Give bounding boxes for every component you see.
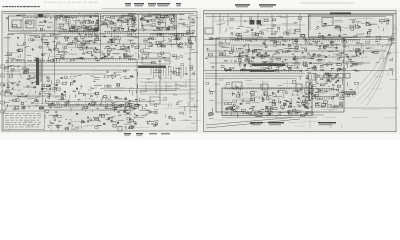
wire: [83, 39, 91, 41]
wire: [114, 71, 122, 73]
capacitor C20: [172, 26, 176, 28]
pin tick: [87, 105, 89, 107]
value label: [125, 51, 128, 52]
wire: [118, 56, 120, 59]
IC U50: [126, 110, 130, 113]
pin tick: [99, 59, 101, 61]
transistor Q48: [108, 54, 110, 56]
value label: [180, 19, 183, 20]
wire: [121, 21, 128, 23]
diode D7: [85, 34, 87, 36]
resistor R21: [187, 30, 190, 32]
wire: [96, 95, 98, 98]
wire: [51, 80, 53, 84]
node junction: [347, 45, 350, 48]
value label: [130, 15, 134, 16]
wire: [140, 117, 144, 119]
wire: [291, 90, 300, 92]
value label: [192, 43, 194, 44]
wire: [323, 22, 327, 24]
pin tick: [166, 16, 168, 18]
pin tick: [75, 16, 77, 18]
value label: [96, 27, 99, 28]
wire: [177, 106, 189, 108]
wire: [357, 23, 359, 28]
wire: [189, 109, 196, 111]
value label: [107, 58, 110, 59]
wire: [294, 56, 299, 58]
wire: [37, 99, 39, 105]
pin tick: [125, 59, 127, 61]
transistor Q19: [169, 18, 172, 21]
wire: [292, 58, 295, 60]
wire: [90, 27, 96, 29]
wire: [48, 56, 63, 58]
pin tick: [96, 32, 98, 34]
pin tick: [155, 16, 157, 18]
pin tick: [89, 32, 91, 34]
wire: [232, 52, 240, 54]
wire: [314, 73, 316, 83]
IC U43: [135, 104, 139, 106]
wire: [65, 61, 71, 63]
value label: [128, 19, 131, 20]
pin tick: [64, 16, 66, 18]
diode D11: [176, 38, 178, 40]
node junction: [47, 126, 50, 129]
wire: [103, 105, 113, 107]
pin tick: [167, 34, 169, 36]
transistor Q39: [74, 38, 77, 40]
node junction: [49, 17, 52, 20]
pin tick: [108, 59, 110, 61]
value label: [336, 26, 339, 27]
sheet title text: [5, 6, 8, 7]
IC U34: [188, 38, 191, 40]
transistor Q31: [42, 54, 44, 56]
node junction: [255, 39, 258, 42]
value label: [264, 62, 267, 63]
transistor Q8: [90, 21, 92, 23]
wire: [278, 68, 280, 73]
wire: [31, 77, 38, 79]
pin tick: [280, 40, 282, 42]
value label: [43, 34, 46, 35]
wire: [357, 86, 359, 90]
wire: [88, 20, 90, 24]
capacitor C56: [34, 86, 36, 88]
wire: [68, 22, 70, 26]
shield bar outline: [41, 60, 42, 82]
wire: [224, 113, 243, 115]
node junction: [84, 22, 87, 25]
pin tick: [162, 16, 164, 18]
value label: [60, 28, 64, 29]
wire: [10, 69, 130, 71]
wire: [107, 75, 109, 79]
wire: [144, 44, 146, 49]
pin tick: [265, 40, 267, 42]
notes text: [5, 126, 8, 129]
wire: [370, 88, 382, 90]
wire: [158, 78, 172, 80]
pin tick: [352, 40, 354, 42]
wire: [24, 121, 32, 123]
wire: [141, 106, 143, 109]
IC U16: [152, 19, 156, 21]
pin tick: [94, 105, 96, 107]
ribbon wire: [173, 67, 175, 76]
pin tick: [238, 40, 240, 42]
pin tick: [273, 40, 275, 42]
wire: [105, 75, 114, 77]
value label: [238, 48, 241, 49]
transistor Q90: [90, 119, 92, 121]
resistor R26: [23, 42, 25, 44]
wire: [138, 54, 140, 59]
header label: [125, 3, 131, 4]
wire: [363, 45, 365, 54]
node junction: [39, 92, 42, 95]
diode D10: [190, 43, 192, 45]
wire: [234, 56, 242, 58]
wire: [72, 26, 74, 29]
label text: [224, 69, 232, 71]
capacitor C69: [134, 104, 138, 106]
wire: [293, 67, 299, 69]
transistor Q13: [117, 29, 119, 31]
wire: [147, 78, 151, 80]
wire: [110, 90, 123, 92]
wire: [127, 28, 129, 32]
transistor Q132: [229, 68, 231, 70]
transistor Q72: [61, 93, 63, 95]
wire: [54, 14, 56, 94]
wire: [111, 122, 118, 124]
wire: [82, 107, 89, 109]
wire: [94, 76, 99, 78]
node junction: [62, 58, 65, 61]
pin tick: [114, 59, 116, 61]
pin tick: [154, 34, 156, 36]
capacitor C12: [111, 16, 115, 18]
resistor R1: [13, 24, 17, 26]
wire: [158, 43, 169, 45]
header label: [235, 4, 250, 5]
wire: [56, 58, 58, 63]
transistor Q6: [95, 28, 97, 30]
sheet title text: [14, 6, 16, 7]
wire: [137, 84, 139, 88]
wire: [145, 24, 152, 26]
wire: [100, 21, 104, 23]
wire: [125, 75, 127, 81]
IC U59: [385, 19, 389, 22]
wire: [124, 123, 132, 125]
pin tick: [248, 71, 250, 73]
wire: [97, 124, 102, 126]
wire: [125, 15, 133, 17]
value label: [169, 27, 172, 28]
transistor Q56: [179, 43, 181, 45]
resistor R4: [60, 24, 64, 26]
power supply block outline: [309, 15, 394, 37]
wire: [177, 33, 181, 35]
notes text: [24, 119, 29, 122]
value label: [267, 55, 270, 56]
resistor R65: [53, 88, 57, 90]
wire: [92, 30, 100, 32]
wire: [185, 42, 187, 46]
wire: [20, 96, 27, 98]
wire: [191, 25, 195, 27]
wire: [84, 52, 89, 54]
pin tick: [266, 71, 268, 73]
wire: [36, 99, 38, 102]
capacitor C9: [131, 29, 133, 31]
transistor Q105: [387, 23, 389, 25]
value label: [10, 93, 13, 94]
wire: [335, 20, 342, 22]
wire: [260, 29, 268, 31]
wire: [275, 69, 279, 71]
wire: [249, 63, 254, 65]
wire: [64, 127, 69, 129]
margin header text: [94, 1, 97, 4]
resistor R90: [252, 32, 256, 34]
wire: [124, 109, 126, 113]
value label: [88, 30, 92, 31]
transistor Q130: [239, 53, 241, 55]
pin tick: [73, 16, 75, 18]
wire: [130, 87, 133, 89]
wire: [144, 16, 152, 18]
wire: [81, 107, 83, 110]
wire: [24, 34, 26, 74]
transistor Q86: [81, 121, 83, 123]
pin tick: [116, 16, 118, 18]
wire: [94, 39, 99, 41]
wire: [134, 36, 139, 38]
node junction: [134, 33, 137, 36]
wire: [187, 16, 189, 20]
capacitor C90: [295, 63, 299, 65]
resistor R59: [9, 75, 12, 77]
IC U60: [221, 65, 224, 67]
node junction: [97, 39, 100, 42]
pin tick: [109, 32, 111, 34]
transistor Q38: [91, 54, 93, 56]
section label text: [11, 60, 14, 61]
wire: [48, 91, 50, 94]
pin tick: [131, 32, 133, 34]
pin tick: [54, 105, 56, 107]
capacitor C41: [104, 56, 107, 57]
transistor Q84: [120, 105, 122, 107]
diode D26: [256, 54, 258, 56]
wire: [183, 119, 188, 121]
node junction: [251, 27, 254, 30]
pin tick: [163, 34, 165, 36]
bus wire: [140, 81, 196, 83]
section label text: [52, 60, 55, 61]
value label: [168, 66, 170, 67]
value label: [274, 41, 277, 42]
resistor R34: [45, 43, 49, 45]
pin tick: [125, 16, 127, 18]
value label: [180, 46, 182, 47]
wire: [268, 36, 276, 38]
wire: [9, 124, 11, 132]
pin tick: [110, 59, 112, 61]
IC U24: [68, 43, 72, 45]
capacitor C46: [157, 44, 161, 47]
value label: [127, 24, 129, 25]
wire: [159, 80, 161, 87]
wire: [17, 45, 24, 47]
wire: [332, 49, 334, 59]
wire: [99, 103, 101, 106]
pin tick: [187, 34, 189, 36]
block label text: [39, 16, 43, 19]
pin tick: [243, 40, 245, 42]
IC U11: [119, 19, 122, 21]
capacitor C103: [356, 48, 359, 50]
wire: [261, 22, 263, 27]
notes text: [16, 126, 18, 129]
resistor R32: [54, 45, 56, 47]
block label text: [44, 16, 48, 19]
notes text: [20, 117, 23, 120]
wire: [362, 108, 380, 110]
wire: [65, 107, 79, 109]
pin tick: [132, 59, 134, 61]
wire: [246, 27, 252, 29]
node junction: [65, 103, 68, 106]
ribbon wire: [183, 67, 185, 77]
notes text: [16, 112, 20, 115]
transistor Q18: [114, 23, 117, 26]
value label: [142, 25, 144, 26]
resistor R27: [8, 53, 12, 55]
value label: [135, 99, 138, 100]
sheet title text: [37, 6, 39, 7]
wire: [95, 92, 97, 95]
wire: [68, 31, 76, 33]
wire: [179, 13, 185, 15]
wire: [110, 26, 112, 31]
resistor R118: [287, 66, 291, 68]
wire: [379, 21, 386, 23]
node junction: [64, 36, 67, 39]
notes text: [10, 121, 12, 124]
transistor Q113: [252, 57, 254, 59]
wire: [40, 58, 42, 60]
pin tick: [161, 34, 163, 36]
transistor Q125: [248, 62, 250, 64]
wire: [238, 63, 254, 65]
pin tick: [124, 32, 126, 34]
wire: [136, 91, 143, 93]
wire: [185, 33, 188, 35]
node junction: [66, 43, 69, 46]
resistor R62: [21, 102, 24, 104]
wire: [68, 47, 83, 49]
pin tick: [120, 105, 122, 107]
value label: [294, 22, 298, 23]
pin tick: [107, 32, 109, 34]
wire: [5, 62, 155, 64]
wire: [293, 29, 295, 33]
IC U38: [47, 85, 49, 87]
connector pin row rail: [102, 15, 135, 17]
value label: [168, 26, 170, 27]
transistor Q98: [153, 124, 155, 126]
wire: [312, 41, 320, 43]
pin tick: [150, 34, 152, 36]
notes text: [19, 119, 23, 122]
wire: [389, 51, 399, 53]
transistor Q64: [27, 86, 29, 88]
resistor R41: [152, 38, 154, 40]
wire: [309, 14, 311, 30]
wire: [84, 94, 90, 96]
pin tick: [235, 71, 237, 73]
wire: [73, 75, 77, 77]
wire: [55, 125, 62, 127]
notes text: [37, 119, 39, 122]
wire: [234, 99, 253, 101]
wire: [230, 18, 236, 20]
wire: [164, 61, 173, 63]
pin tick: [261, 71, 263, 73]
value label: [76, 58, 80, 59]
wire: [101, 99, 103, 104]
ribbon wire: [150, 67, 152, 76]
capacitor C98: [235, 39, 238, 41]
wire: [246, 69, 249, 71]
wire: [79, 49, 89, 51]
terminal strip TB1: [142, 53, 170, 58]
transistor Q117: [239, 61, 241, 63]
transistor Q55: [159, 42, 161, 44]
wire: [268, 62, 275, 64]
diode D13: [19, 81, 21, 82]
wire: [296, 66, 298, 69]
notes text: [22, 123, 26, 126]
wire: [218, 55, 229, 57]
node junction: [154, 43, 157, 46]
header rule: [102, 8, 197, 10]
wire: [29, 35, 36, 37]
wire: [129, 56, 131, 61]
diode D22: [103, 123, 105, 125]
wire: [44, 109, 134, 111]
wire: [284, 59, 289, 61]
notes text: [15, 123, 17, 126]
value label: [47, 27, 51, 28]
wire: [52, 58, 54, 60]
wire: [78, 19, 80, 22]
wire: [190, 88, 194, 90]
resistor R120: [246, 53, 248, 56]
edge connector tag: [1, 83, 5, 86]
wire: [221, 113, 239, 115]
pin tick: [144, 16, 146, 18]
wire: [119, 17, 124, 19]
wire: [129, 13, 136, 15]
wire: [94, 84, 102, 86]
